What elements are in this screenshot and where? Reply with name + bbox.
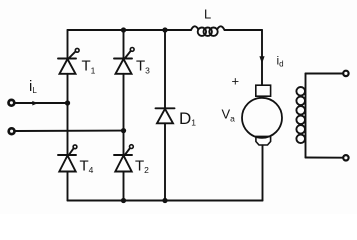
node junction input top on left rail — [65, 100, 70, 105]
wire D1 rail lower — [164, 123, 166, 200]
wire left rail middle — [67, 74, 69, 155]
wire field bottom — [306, 157, 343, 159]
wire mid rail upper — [123, 30, 125, 59]
node junction top rail at D1 leg — [162, 27, 167, 32]
node junction top rail at mid leg — [121, 27, 126, 32]
wire input bottom — [15, 130, 123, 132]
thyristor T2 — [114, 145, 133, 172]
motor brush bottom — [256, 136, 271, 145]
arrow iL current — [32, 101, 38, 106]
svg-text:T4: T4 — [80, 158, 94, 176]
arrow id current — [259, 56, 264, 63]
inductor L — [191, 26, 225, 36]
svg-text:L: L — [204, 7, 211, 22]
node junction input bottom on mid rail — [121, 128, 126, 133]
wire mid rail middle — [123, 74, 125, 155]
diode D1 — [156, 108, 175, 123]
svg-text:D1: D1 — [179, 109, 196, 128]
thyristor T3 — [114, 48, 134, 74]
terminal input top — [9, 100, 15, 106]
wire mid rail lower — [123, 172, 125, 201]
terminal input bottom — [9, 128, 15, 134]
wire input top — [15, 102, 67, 104]
svg-text:T3: T3 — [136, 58, 150, 76]
svg-text:iL: iL — [29, 78, 37, 95]
wire left rail upper — [67, 30, 69, 59]
wire field top — [306, 73, 343, 75]
terminal field top — [343, 71, 348, 76]
wire right vertical to motor — [261, 30, 263, 85]
wire motor bottom — [262, 145, 264, 200]
wire D1 rail upper — [164, 30, 166, 108]
thyristor T4 — [58, 145, 77, 172]
svg-text:Va: Va — [222, 107, 236, 124]
svg-text:T1: T1 — [82, 58, 96, 76]
terminal field bottom — [343, 155, 348, 160]
svg-text:+: + — [232, 74, 240, 89]
svg-text:id: id — [277, 54, 284, 69]
motor brush top — [256, 85, 271, 96]
field winding coil — [296, 74, 305, 158]
motor armature M circle — [242, 98, 282, 138]
svg-text:T2: T2 — [135, 158, 149, 176]
node junction bottom rail at mid leg — [121, 198, 126, 203]
wire bottom rail — [68, 200, 263, 202]
node junction bottom rail at D1 leg — [162, 198, 167, 203]
thyristor T1 — [58, 48, 79, 73]
wire top rail left segment — [68, 29, 192, 31]
wire top rail right segment — [225, 29, 263, 31]
wire left rail lower — [67, 172, 69, 201]
